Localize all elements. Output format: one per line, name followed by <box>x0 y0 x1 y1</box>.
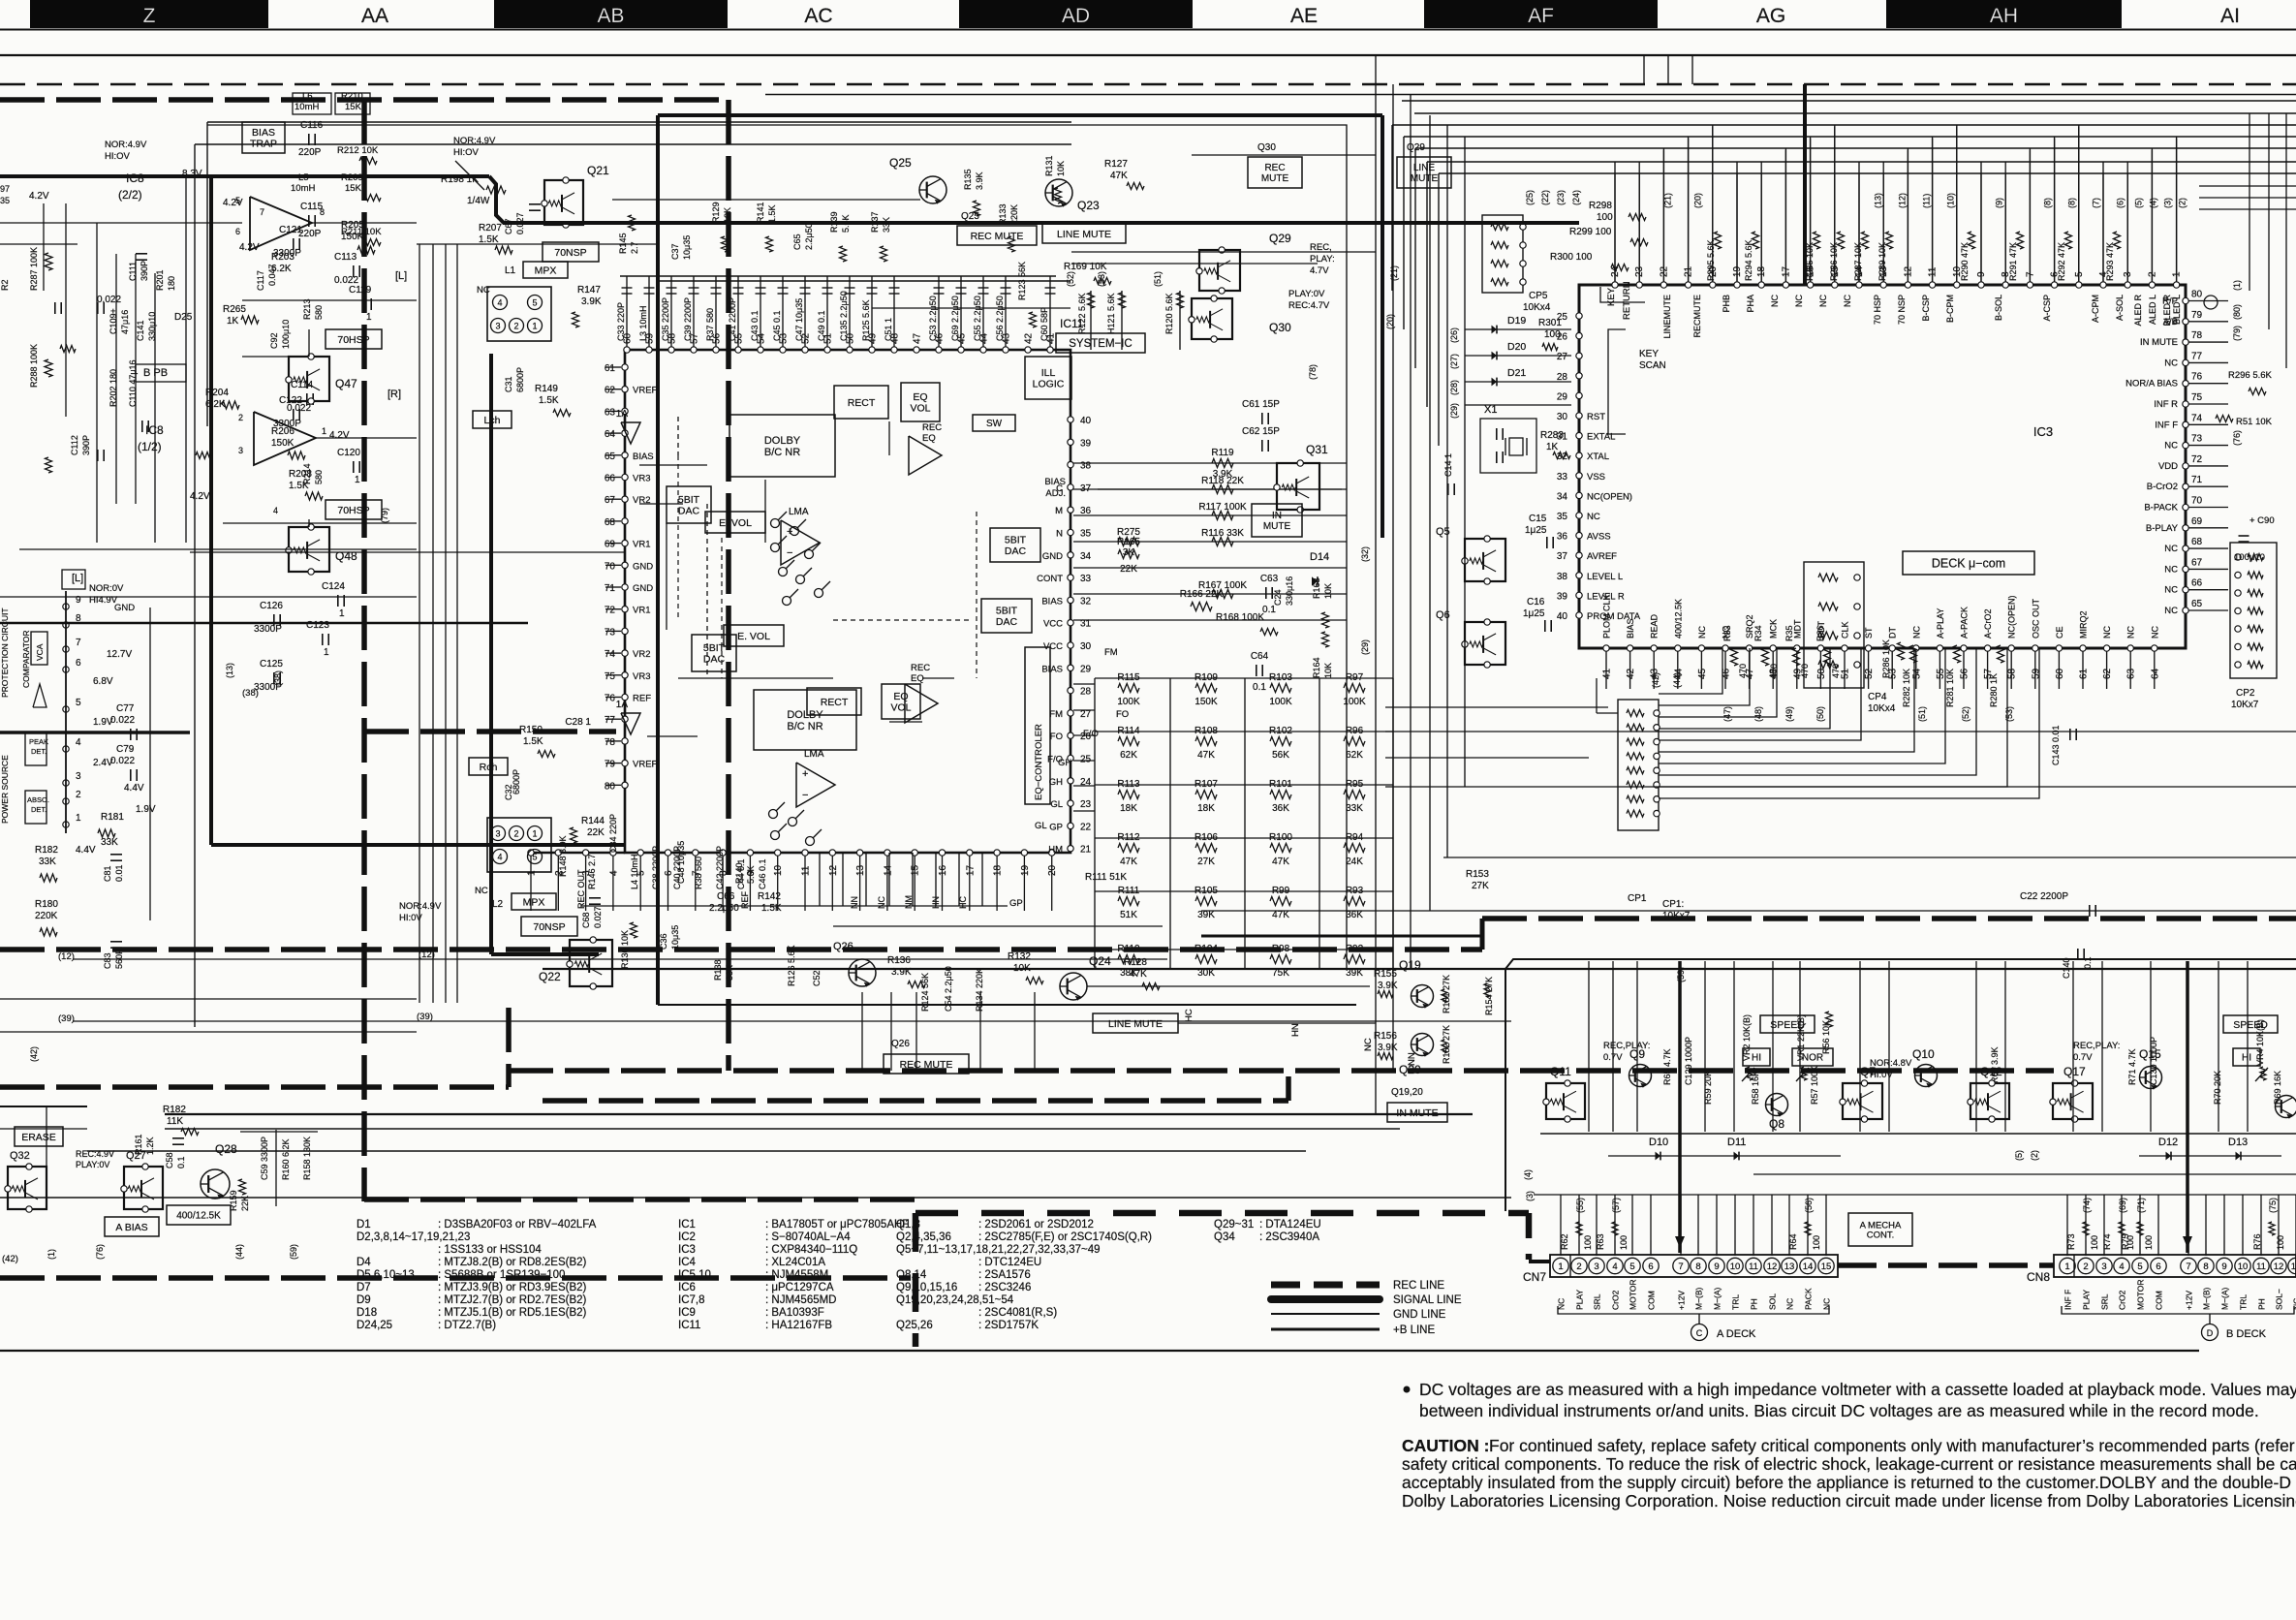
svg-text:1: 1 <box>339 608 345 619</box>
svg-text:C: C <box>1696 1328 1703 1338</box>
svg-text:BIAS: BIAS <box>1626 618 1635 639</box>
svg-text:A BIAS: A BIAS <box>115 1222 147 1233</box>
svg-text:C135 2.2μ50: C135 2.2μ50 <box>839 291 849 341</box>
svg-text:C14 1: C14 1 <box>1443 453 1453 477</box>
svg-text:NC: NC <box>2164 544 2178 554</box>
svg-text:R161: R161 <box>134 1134 143 1155</box>
svg-text:20: 20 <box>1047 864 1058 876</box>
svg-text:C69 2.2μ50: C69 2.2μ50 <box>950 296 960 341</box>
svg-text:C37: C37 <box>670 243 680 260</box>
svg-text:47K: 47K <box>1197 750 1215 761</box>
svg-text:Q12: Q12 <box>1980 1065 2002 1078</box>
svg-text:R119: R119 <box>1211 448 1234 458</box>
svg-text:69: 69 <box>605 540 616 550</box>
svg-text:Q26: Q26 <box>833 941 853 952</box>
svg-text:5: 5 <box>235 196 240 205</box>
svg-text:L5: L5 <box>298 172 309 183</box>
svg-text:R138: R138 <box>713 959 723 981</box>
svg-text:GP: GP <box>1049 822 1063 832</box>
svg-text:400/12.5K: 400/12.5K <box>1673 599 1683 639</box>
svg-text:(71): (71) <box>2136 1198 2146 1213</box>
svg-text:C59 3300P: C59 3300P <box>260 1137 269 1180</box>
svg-text:15K: 15K <box>345 183 362 194</box>
svg-text:A-PLAY: A-PLAY <box>1936 608 1945 639</box>
svg-text:R136: R136 <box>887 955 911 966</box>
svg-text:1.5K: 1.5K <box>761 903 782 914</box>
svg-text:NC: NC <box>1911 626 1921 639</box>
svg-text:+12V: +12V <box>2185 1291 2194 1310</box>
svg-text:(44): (44) <box>234 1244 244 1260</box>
svg-text:BIAS: BIAS <box>633 452 654 462</box>
svg-text:AB: AB <box>597 5 624 27</box>
svg-text:1μ25: 1μ25 <box>1523 608 1545 619</box>
svg-text:LINE MUTE: LINE MUTE <box>1057 229 1111 240</box>
svg-text:IC3: IC3 <box>678 1244 696 1256</box>
svg-text:1μ25: 1μ25 <box>1525 525 1547 536</box>
svg-text:R135: R135 <box>963 169 973 190</box>
svg-text:DAC: DAC <box>678 505 700 516</box>
svg-text:AE: AE <box>1290 5 1318 27</box>
svg-text:NC: NC <box>1818 295 1828 307</box>
svg-text:C113: C113 <box>334 252 357 263</box>
svg-text:NC: NC <box>2164 585 2178 596</box>
svg-text:VDD: VDD <box>2158 461 2178 472</box>
svg-text:R282 10K: R282 10K <box>1902 669 1911 707</box>
svg-text:: 2SD1757K: : 2SD1757K <box>978 1320 1039 1331</box>
svg-text:IC9: IC9 <box>678 1307 696 1319</box>
svg-text:R131: R131 <box>1044 155 1054 176</box>
svg-text:CLK: CLK <box>1841 621 1850 639</box>
svg-text:470: 470 <box>1738 664 1748 678</box>
svg-text:150K: 150K <box>271 438 295 449</box>
svg-text:Q30: Q30 <box>1269 321 1291 334</box>
svg-text:1.5K: 1.5K <box>523 736 543 747</box>
svg-text:GP: GP <box>1009 898 1023 909</box>
svg-text:SOL: SOL <box>1768 1293 1778 1310</box>
svg-text:Q28: Q28 <box>215 1142 237 1156</box>
svg-text:R35: R35 <box>1784 625 1794 641</box>
svg-text:27K: 27K <box>1472 881 1489 891</box>
svg-text:PROTECTION CIRCUIT: PROTECTION CIRCUIT <box>0 607 10 698</box>
svg-text:25: 25 <box>1080 755 1092 765</box>
svg-text:100μ10: 100μ10 <box>2234 552 2265 563</box>
svg-text:3.9K: 3.9K <box>975 171 984 190</box>
svg-text:B-CSP: B-CSP <box>1921 295 1931 322</box>
svg-text:IN: IN <box>1272 511 1282 521</box>
svg-text:VR3: VR3 <box>633 671 650 682</box>
svg-text:NN: NN <box>850 896 859 909</box>
svg-text:0.01: 0.01 <box>114 864 124 882</box>
svg-text:Q29: Q29 <box>1269 232 1291 245</box>
svg-text:R37 580: R37 580 <box>705 308 715 341</box>
svg-text:MUTE: MUTE <box>1261 173 1289 184</box>
svg-text:(44): (44) <box>1672 672 1682 688</box>
svg-text:Q29: Q29 <box>1407 142 1425 153</box>
svg-text:3.9K: 3.9K <box>1378 981 1398 991</box>
svg-text:4: 4 <box>2119 1262 2124 1272</box>
svg-text:R209: R209 <box>341 172 363 183</box>
svg-text:NC: NC <box>475 886 488 896</box>
svg-text:C67: C67 <box>504 218 513 234</box>
svg-text:DAC: DAC <box>996 616 1018 628</box>
svg-text:PHA: PHA <box>1746 295 1755 313</box>
svg-text:2.2μ50: 2.2μ50 <box>709 903 739 914</box>
svg-text:D11: D11 <box>1727 1137 1746 1148</box>
svg-text:390P: 390P <box>140 261 149 281</box>
svg-text:D19: D19 <box>1507 315 1526 327</box>
svg-text:ALED R: ALED R <box>2133 295 2143 327</box>
svg-text:R130 10K: R130 10K <box>620 930 630 969</box>
svg-text:Q5~7,11~13,17,18,21,22,27,32,3: Q5~7,11~13,17,18,21,22,27,32,33,37~49 <box>896 1244 1101 1256</box>
svg-text:VR2 10K(B): VR2 10K(B) <box>1742 1014 1752 1061</box>
svg-text:0.1: 0.1 <box>1253 682 1266 693</box>
svg-text:76: 76 <box>605 694 616 704</box>
svg-text:MUTE: MUTE <box>1411 173 1439 184</box>
svg-text:100: 100 <box>1619 1235 1629 1250</box>
svg-text:R145: R145 <box>618 233 628 254</box>
svg-text:NC: NC <box>2126 626 2136 639</box>
svg-text:10Kx4: 10Kx4 <box>1868 703 1896 714</box>
svg-text:76: 76 <box>2191 372 2203 383</box>
svg-text:1: 1 <box>324 647 329 658</box>
svg-text:(42): (42) <box>2 1254 18 1264</box>
svg-text:R122 5.6K: R122 5.6K <box>1077 293 1087 334</box>
svg-text:52: 52 <box>1864 668 1875 679</box>
svg-text:D12: D12 <box>2158 1137 2178 1148</box>
svg-text:10: 10 <box>2238 1262 2249 1272</box>
svg-text:100: 100 <box>1812 1235 1821 1250</box>
svg-text:3300P: 3300P <box>254 624 282 635</box>
svg-text:5BIT: 5BIT <box>996 606 1018 617</box>
svg-text:CAUTION :: CAUTION : <box>1402 1436 1489 1455</box>
svg-text:REC: REC <box>911 663 930 673</box>
svg-text:27K: 27K <box>1197 857 1215 867</box>
svg-text:10Kx7: 10Kx7 <box>2231 700 2259 710</box>
svg-text:R129: R129 <box>711 202 721 223</box>
svg-text:330μ16: 330μ16 <box>1285 576 1294 606</box>
svg-text:: MTZJ3.9(B) or RD3.9ES(B2): : MTZJ3.9(B) or RD3.9ES(B2) <box>438 1282 587 1293</box>
svg-text:(55): (55) <box>1575 1198 1585 1213</box>
svg-text:(39): (39) <box>417 1012 433 1022</box>
svg-text:IC5,10: IC5,10 <box>678 1269 711 1281</box>
svg-text:35: 35 <box>0 196 10 205</box>
svg-text:33K: 33K <box>39 857 56 867</box>
svg-text:1: 1 <box>322 426 326 436</box>
svg-text:C42 2200P: C42 2200P <box>715 846 725 889</box>
svg-text:D2,3,8,14~17,19,21,23: D2,3,8,14~17,19,21,23 <box>357 1231 470 1243</box>
svg-text:FO: FO <box>1116 709 1129 720</box>
svg-text:: NJM4565MD: : NJM4565MD <box>765 1294 837 1306</box>
svg-text:VCA: VCA <box>35 643 45 661</box>
svg-text:COM: COM <box>1647 1291 1657 1310</box>
svg-text:GND: GND <box>114 603 135 613</box>
svg-text:R286 10K: R286 10K <box>1881 639 1891 678</box>
svg-text:41: 41 <box>1602 668 1613 679</box>
svg-text:(27): (27) <box>1449 354 1459 369</box>
svg-text:MIRQ2: MIRQ2 <box>2079 610 2089 639</box>
svg-text:64: 64 <box>605 429 616 440</box>
svg-text:R295 5.6K: R295 5.6K <box>1706 239 1716 281</box>
svg-text:4.2V: 4.2V <box>329 430 350 441</box>
svg-text:47K: 47K <box>1272 857 1289 867</box>
svg-text:1/4W: 1/4W <box>467 196 490 206</box>
svg-text:580: 580 <box>314 470 324 484</box>
svg-text:NC: NC <box>1770 295 1780 307</box>
svg-text:D7: D7 <box>357 1282 371 1293</box>
svg-text:(8): (8) <box>2067 198 2077 208</box>
svg-text:R144: R144 <box>581 816 605 826</box>
svg-text:C39 2200P: C39 2200P <box>683 297 693 341</box>
svg-text:IC2: IC2 <box>678 1231 696 1243</box>
svg-text:MOTOR: MOTOR <box>1629 1280 1638 1310</box>
svg-text:390P: 390P <box>81 435 91 455</box>
svg-text:36K: 36K <box>1346 910 1363 920</box>
svg-text:NC: NC <box>1785 1298 1795 1310</box>
svg-text:EQ: EQ <box>893 691 908 702</box>
svg-text:470: 470 <box>1831 664 1841 678</box>
svg-text:BIAS: BIAS <box>252 127 275 139</box>
svg-text:LINE: LINE <box>1413 163 1436 173</box>
svg-text:C123: C123 <box>306 620 329 631</box>
svg-text:100: 100 <box>1583 1235 1593 1250</box>
svg-text:580: 580 <box>314 305 324 320</box>
svg-text:R127: R127 <box>1104 159 1128 170</box>
svg-text:R33: R33 <box>1722 625 1732 641</box>
svg-text:C65: C65 <box>792 234 802 250</box>
svg-text:R147: R147 <box>577 285 601 296</box>
svg-text:R38 560: R38 560 <box>694 857 703 889</box>
svg-text:3300P: 3300P <box>273 419 301 429</box>
svg-text:Q32: Q32 <box>10 1150 30 1162</box>
svg-text:CE: CE <box>2055 626 2064 639</box>
svg-text:IC6: IC6 <box>678 1282 696 1293</box>
svg-text:(5): (5) <box>2134 198 2144 208</box>
svg-text:C52: C52 <box>812 970 822 986</box>
svg-text:NC: NC <box>1363 1038 1374 1051</box>
svg-text:C15: C15 <box>1529 514 1547 524</box>
svg-text:C40 2200P: C40 2200P <box>672 846 682 889</box>
svg-text:69: 69 <box>2191 516 2203 527</box>
svg-text:47K: 47K <box>1120 857 1137 867</box>
svg-text:(3): (3) <box>1525 1191 1535 1201</box>
svg-text:R201: R201 <box>155 269 165 291</box>
svg-text:2: 2 <box>513 829 518 839</box>
svg-text:Q8: Q8 <box>1769 1117 1784 1131</box>
svg-text:27: 27 <box>1557 352 1568 362</box>
svg-text:220P: 220P <box>298 147 322 158</box>
svg-text:+: + <box>802 768 808 780</box>
svg-text:18: 18 <box>993 864 1004 876</box>
svg-text:51K: 51K <box>1120 910 1137 920</box>
svg-text:R265: R265 <box>223 304 246 315</box>
svg-text:D24,25: D24,25 <box>357 1320 392 1331</box>
svg-text:HI: HI <box>1752 1053 1761 1064</box>
svg-text:(79): (79) <box>2232 326 2242 341</box>
svg-text:R155: R155 <box>1374 969 1397 980</box>
svg-text:R288 100K: R288 100K <box>29 344 39 388</box>
svg-text:100: 100 <box>1544 329 1561 340</box>
svg-text:2: 2 <box>76 790 81 800</box>
svg-text:B-SOL: B-SOL <box>1994 295 2003 321</box>
svg-text:NOR/A BIAS: NOR/A BIAS <box>2125 379 2178 389</box>
svg-text:R160 6.2K: R160 6.2K <box>281 1138 291 1180</box>
svg-text:74: 74 <box>605 649 616 660</box>
svg-text:−: − <box>787 547 792 559</box>
svg-text:SYSTEM−IC: SYSTEM−IC <box>1069 338 1132 350</box>
svg-text:R286 10K: R286 10K <box>1829 242 1839 281</box>
svg-text:14: 14 <box>883 864 893 876</box>
svg-text:: 2SC2785(F,E) or 2SC1740S(Q: : 2SC2785(F,E) or 2SC1740S(Q,R) <box>978 1231 1152 1243</box>
svg-text:NOR:4.8V: NOR:4.8V <box>1870 1058 1912 1069</box>
svg-text:C122: C122 <box>279 395 302 406</box>
svg-text:R213: R213 <box>302 298 312 320</box>
svg-text:(42): (42) <box>29 1046 39 1062</box>
svg-text:4: 4 <box>273 506 278 515</box>
svg-text:10K: 10K <box>1056 161 1066 176</box>
svg-text:1.9V: 1.9V <box>93 717 113 728</box>
svg-text:38: 38 <box>1080 461 1092 472</box>
svg-text:+ C90: + C90 <box>2249 515 2275 526</box>
svg-text:1.5K: 1.5K <box>767 204 777 223</box>
svg-text:IN MUTE: IN MUTE <box>2140 337 2178 348</box>
svg-text:(53): (53) <box>1097 271 1106 287</box>
svg-text:3: 3 <box>2101 1262 2106 1272</box>
svg-text:EQ: EQ <box>911 673 924 684</box>
svg-text:11K: 11K <box>167 1116 183 1127</box>
svg-text:NC(OPEN): NC(OPEN) <box>2007 595 2017 639</box>
svg-text:CONT.: CONT. <box>1867 1231 1895 1241</box>
svg-text:VREF: VREF <box>633 386 658 396</box>
svg-text:2: 2 <box>1576 1262 1581 1272</box>
svg-text:R180: R180 <box>35 899 58 910</box>
svg-text:TRL: TRL <box>2239 1294 2249 1310</box>
svg-text:(49): (49) <box>1784 706 1794 722</box>
svg-text:PH: PH <box>1750 1298 1759 1310</box>
svg-text:6800P: 6800P <box>515 367 525 392</box>
svg-text:12: 12 <box>2274 1262 2284 1272</box>
svg-text:D18: D18 <box>357 1307 377 1319</box>
svg-text:REF: REF <box>633 694 651 704</box>
svg-text:C68: C68 <box>581 912 591 928</box>
svg-text:R281 10K: R281 10K <box>1945 669 1955 707</box>
svg-text:R211 10K: R211 10K <box>341 227 382 237</box>
svg-text:N: N <box>1056 529 1063 540</box>
svg-text:NC: NC <box>1697 626 1707 639</box>
svg-text:R283: R283 <box>1540 430 1564 441</box>
svg-text:E. VOL: E. VOL <box>737 631 770 642</box>
svg-text:VSS: VSS <box>1587 472 1605 483</box>
svg-text:(53): (53) <box>2004 706 2014 722</box>
svg-text:C46 0.1: C46 0.1 <box>758 858 767 889</box>
svg-text:(4): (4) <box>1523 1169 1533 1180</box>
svg-text:CONT: CONT <box>1037 574 1063 584</box>
svg-text:4.7V: 4.7V <box>1310 265 1329 276</box>
svg-text:D13: D13 <box>2228 1137 2248 1148</box>
svg-text:7: 7 <box>76 638 81 648</box>
svg-text:3.9K: 3.9K <box>581 296 602 307</box>
svg-text:INF R: INF R <box>2154 399 2178 410</box>
svg-text:acceptably insulated from the: acceptably insulated from the supply cir… <box>1402 1473 2296 1492</box>
svg-text:C125: C125 <box>260 659 283 670</box>
svg-text:IC8: IC8 <box>126 171 144 185</box>
svg-text:1: 1 <box>532 322 537 331</box>
svg-text:C129 1000P: C129 1000P <box>1684 1037 1693 1085</box>
svg-text:(7): (7) <box>2092 198 2101 208</box>
svg-text:FM: FM <box>1049 709 1063 720</box>
svg-text:40: 40 <box>1557 611 1568 622</box>
svg-text:(74): (74) <box>2082 1198 2092 1213</box>
svg-text:AI: AI <box>2220 5 2240 27</box>
svg-text:: DTZ2.7(B): : DTZ2.7(B) <box>438 1320 496 1331</box>
svg-text:33K: 33K <box>101 837 118 848</box>
svg-text:5: 5 <box>532 298 537 308</box>
svg-text:C49 0.1: C49 0.1 <box>817 310 826 341</box>
svg-text:R124 56K: R124 56K <box>920 973 930 1012</box>
svg-text:GND: GND <box>633 561 653 572</box>
svg-text:: BA10393F: : BA10393F <box>765 1307 824 1319</box>
svg-text:B-PACK: B-PACK <box>2144 503 2178 514</box>
svg-text:GH: GH <box>1058 758 1071 768</box>
svg-text:Q8,14: Q8,14 <box>896 1269 927 1281</box>
svg-text:220K: 220K <box>35 911 58 921</box>
svg-text:B DECK: B DECK <box>2226 1328 2267 1340</box>
svg-text:23: 23 <box>1080 799 1092 810</box>
svg-text:68: 68 <box>605 517 616 528</box>
svg-text:17: 17 <box>965 864 976 876</box>
svg-text:NC: NC <box>877 896 886 909</box>
svg-text:MOTOR: MOTOR <box>2136 1280 2146 1310</box>
svg-text:NOR:4.9V: NOR:4.9V <box>399 901 442 912</box>
svg-text:(78): (78) <box>1308 364 1318 380</box>
svg-text:100: 100 <box>2090 1235 2099 1250</box>
svg-text:70HSP: 70HSP <box>337 334 369 346</box>
svg-text:68: 68 <box>2191 537 2203 547</box>
svg-text:[L]: [L] <box>72 573 83 584</box>
svg-text:2: 2 <box>238 413 243 422</box>
svg-text:77: 77 <box>605 715 616 726</box>
svg-text:M: M <box>1055 506 1063 516</box>
svg-text:21: 21 <box>1080 845 1092 856</box>
svg-text:(11): (11) <box>1922 194 1932 208</box>
svg-text:INF F: INF F <box>2155 420 2178 430</box>
svg-text:CP5: CP5 <box>1529 291 1548 301</box>
svg-text:62: 62 <box>605 386 616 396</box>
svg-text:8: 8 <box>1695 1262 1700 1272</box>
svg-text:C143 0.01: C143 0.01 <box>2051 725 2061 765</box>
svg-text:L3 10mH: L3 10mH <box>638 305 648 341</box>
svg-text:(22): (22) <box>1540 190 1550 205</box>
svg-text:IC7,8: IC7,8 <box>678 1294 705 1306</box>
svg-text:4.2V: 4.2V <box>190 491 210 502</box>
svg-text:REC,PLAY:: REC,PLAY: <box>2073 1041 2120 1051</box>
svg-text:1A: 1A <box>616 409 629 420</box>
svg-text:(52): (52) <box>1961 706 1970 722</box>
svg-text:70: 70 <box>2191 496 2203 507</box>
svg-text:NC: NC <box>1794 295 1804 307</box>
svg-text:5: 5 <box>2137 1262 2142 1272</box>
svg-text:10K: 10K <box>1323 583 1333 599</box>
svg-text:CP2: CP2 <box>2236 688 2255 699</box>
svg-text:33K: 33K <box>725 965 734 981</box>
svg-text:H121 5.6K: H121 5.6K <box>1106 293 1116 334</box>
svg-text:: D3SBA20F03 or RBV−402LFA: : D3SBA20F03 or RBV−402LFA <box>438 1219 597 1231</box>
svg-text:HM: HM <box>1048 845 1063 856</box>
svg-text:REC: REC <box>922 422 942 433</box>
svg-text:D4: D4 <box>357 1257 371 1268</box>
svg-text:VR1: VR1 <box>633 606 650 616</box>
svg-text:(12): (12) <box>58 951 75 962</box>
svg-text:(13): (13) <box>1874 193 1883 208</box>
